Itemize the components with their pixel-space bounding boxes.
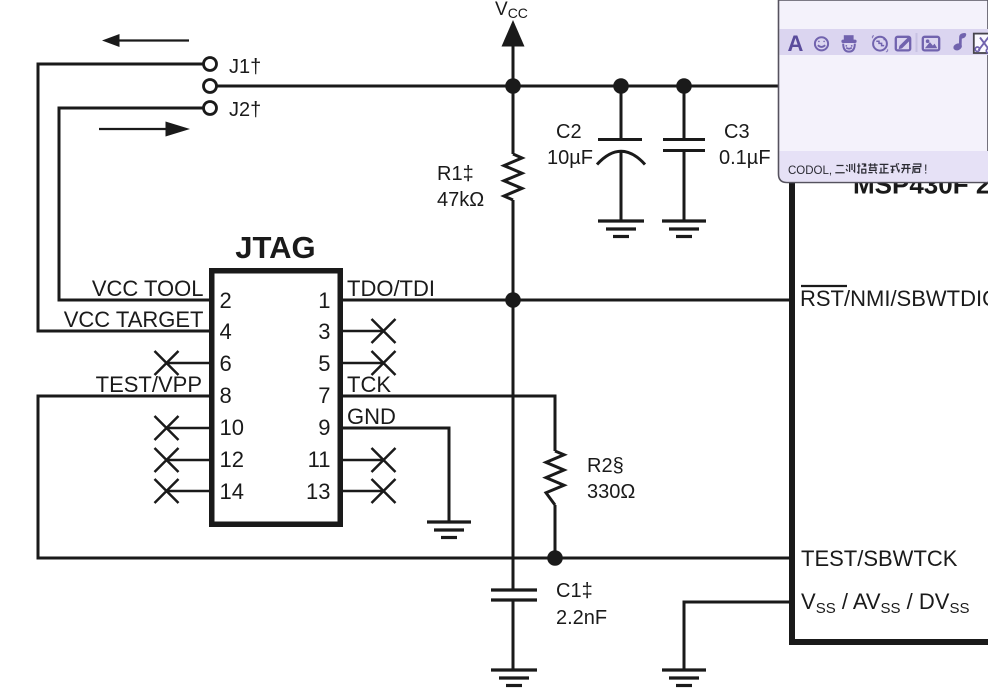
panel footer chinese glyphs (drawn) [835, 163, 921, 173]
no-connect stub pin 6 [167, 362, 210, 365]
no-connect stub pin 11 [343, 459, 384, 462]
svg-text:C2: C2 [556, 121, 582, 143]
no-connect X pin 3 [372, 319, 396, 343]
svg-text:GND: GND [347, 404, 396, 429]
resistor R1 [504, 86, 522, 300]
svg-text:A: A [788, 31, 804, 56]
ground (C3) [662, 221, 706, 237]
ground (JTAG pin 9) [427, 522, 471, 538]
toolbar icon: edit pencil box [896, 37, 911, 51]
wire: R2 bottom to TEST net [554, 505, 557, 558]
svg-text:VCC TARGET: VCC TARGET [64, 307, 204, 332]
jumper common pin circle [204, 80, 217, 93]
power VCC symbol [495, 0, 528, 86]
svg-text:1: 1 [318, 288, 330, 313]
no-connect stub pin 12 [167, 459, 210, 462]
svg-text:330Ω: 330Ω [587, 481, 635, 503]
svg-text:TEST/VPP: TEST/VPP [96, 372, 202, 397]
no-connect stub pin 13 [343, 490, 384, 493]
svg-text:11: 11 [308, 447, 331, 472]
svg-text:6: 6 [220, 351, 232, 376]
junction: R2 / TEST net [547, 550, 563, 566]
capacitor C1 [491, 590, 537, 670]
connector JTAG box [212, 271, 341, 525]
toolbar icon: scissors box (cut off) [974, 34, 988, 53]
capacitor C2 [597, 86, 645, 221]
no-connect X pin 13 [372, 479, 396, 503]
svg-text:TEST/SBWTCK: TEST/SBWTCK [801, 546, 958, 571]
svg-text:VCC TOOL: VCC TOOL [92, 276, 204, 301]
svg-text:CODOL,: CODOL, [788, 165, 832, 177]
ground (VSS) [662, 670, 706, 686]
svg-text:14: 14 [220, 479, 244, 504]
svg-text:JTAG: JTAG [235, 230, 315, 265]
no-connect stub pin 3 [343, 330, 384, 333]
no-connect stub pin 5 [343, 362, 384, 365]
no-connect X pin 11 [372, 448, 396, 472]
svg-text:47kΩ: 47kΩ [437, 189, 484, 211]
arrow pointing left [117, 39, 189, 41]
capacitor C3 [663, 86, 705, 221]
wire: RST net down to C1 [512, 300, 515, 590]
wire: VCC top rail [217, 85, 792, 88]
svg-text:9: 9 [318, 415, 330, 440]
svg-text:8: 8 [220, 383, 232, 408]
no-connect X pin 14 [155, 479, 179, 503]
toolbar icon: smiley [815, 37, 828, 50]
svg-text:TDO/TDI: TDO/TDI [347, 276, 435, 301]
svg-text:10µF: 10µF [547, 147, 593, 169]
svg-text:2: 2 [220, 288, 232, 313]
svg-text:TCK: TCK [347, 372, 391, 397]
toolbar icon: image [923, 37, 939, 51]
no-connect stub pin 10 [167, 427, 210, 430]
svg-text:10: 10 [220, 415, 244, 440]
wire: TDO/TDI (pin 1) to RST/NMI/SBWTDIO [343, 299, 791, 302]
svg-text:13: 13 [306, 479, 330, 504]
svg-text:2.2nF: 2.2nF [556, 607, 607, 629]
no-connect X pin 6 [155, 351, 179, 375]
glyph mu [868, 163, 877, 173]
wire: TCK (pin 7) to R2 top [343, 396, 555, 451]
glyph zheng [879, 164, 889, 173]
wire: GND (pin 9) to ground [343, 428, 449, 522]
arrow pointing right [99, 128, 167, 130]
junction: R1 / TDO-TDI / RST [505, 292, 521, 308]
svg-text:R1‡: R1‡ [437, 163, 474, 185]
svg-text:5: 5 [318, 351, 330, 376]
svg-text:12: 12 [220, 447, 244, 472]
junction: C2 on VCC rail [613, 78, 629, 94]
svg-text:J2†: J2† [229, 99, 261, 121]
toolbar separator [916, 33, 918, 52]
glyph qi [912, 164, 920, 174]
svg-text:3: 3 [318, 319, 330, 344]
glyph er [835, 166, 844, 173]
wire: J1 to VCC TARGET (pin 4) [38, 64, 209, 331]
toolbar icon: hat smiley [841, 35, 856, 51]
overlay panel [779, 0, 988, 183]
svg-text:7: 7 [318, 383, 330, 408]
toolbar icon: music note [952, 33, 966, 52]
glyph ce [846, 163, 855, 172]
ground (C2) [598, 221, 644, 237]
svg-text:C3: C3 [724, 121, 750, 143]
glyph zhao [857, 163, 866, 173]
glyph kai [901, 165, 911, 174]
junction: VCC / R1 [505, 78, 521, 94]
svg-text:4: 4 [220, 319, 232, 344]
wire: J2 to VCC TOOL (pin 2) [59, 108, 209, 300]
wire: TEST/VPP (pin 8) to TEST/SBWTCK [38, 396, 791, 558]
glyph shi [890, 163, 899, 172]
no-connect stub pin 14 [167, 490, 210, 493]
wire: VSS pin to ground [684, 602, 791, 670]
no-connect X pin 5 [372, 351, 396, 375]
jumper J2 pin circle [204, 102, 217, 115]
svg-text:C1‡: C1‡ [556, 580, 593, 602]
toolbar icon: dice circle [872, 36, 887, 52]
resistor R2 [546, 451, 564, 505]
svg-text:R2§: R2§ [587, 455, 624, 477]
svg-text:!: ! [924, 163, 927, 177]
junction: C3 on VCC rail [676, 78, 692, 94]
label RST/NMI/SBWTDIO with overline [801, 285, 847, 287]
no-connect X pin 12 [155, 448, 179, 472]
svg-text:RST/NMI/SBWTDIO: RST/NMI/SBWTDIO [800, 286, 988, 311]
svg-text:J1†: J1† [229, 56, 261, 78]
svg-text:0.1µF: 0.1µF [719, 147, 771, 169]
jumper J1 pin circle [204, 58, 217, 71]
IC MSP430 box [792, 158, 988, 642]
ground (C1) [491, 670, 537, 686]
no-connect X pin 10 [155, 416, 179, 440]
